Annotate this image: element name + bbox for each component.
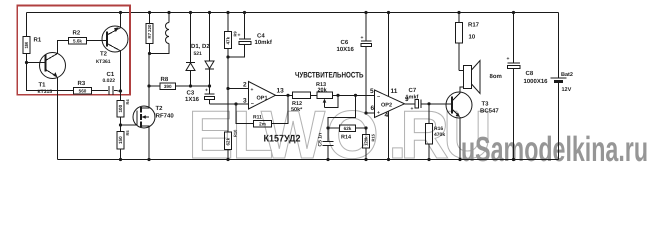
svg-text:+: + bbox=[377, 110, 380, 116]
op-amp OP1 bbox=[249, 82, 276, 110]
node T2 collector / C1 / R4 bbox=[119, 89, 122, 92]
resistor R4 bbox=[117, 91, 130, 132]
svg-text:13: 13 bbox=[277, 88, 285, 95]
watermark ELWO.RU bbox=[188, 97, 492, 173]
svg-text:R7 220: R7 220 bbox=[147, 24, 152, 38]
svg-text:R17: R17 bbox=[468, 22, 480, 29]
potentiometer R13 bbox=[316, 82, 375, 108]
svg-text:100: 100 bbox=[118, 104, 123, 112]
svg-text:C3: C3 bbox=[187, 90, 195, 97]
capacitor C6 bbox=[361, 13, 372, 114]
svg-text:КТ361: КТ361 bbox=[96, 59, 111, 65]
svg-text:20k: 20k bbox=[318, 88, 328, 94]
svg-text:R5: R5 bbox=[125, 130, 130, 136]
resistor R8 bbox=[149, 76, 191, 89]
capacitor C1 bbox=[109, 86, 113, 95]
svg-text:Bat2: Bat2 bbox=[561, 72, 573, 78]
wire to T3 base bbox=[429, 103, 452, 105]
transistor T2 KT361 bbox=[102, 26, 128, 52]
battery Bat2 bbox=[551, 13, 567, 160]
resistor R5 bbox=[117, 130, 130, 160]
svg-text:+: + bbox=[507, 56, 510, 62]
wire T1 collector to R2 bbox=[58, 41, 69, 54]
svg-text:470k: 470k bbox=[434, 132, 445, 138]
svg-text:8om: 8om bbox=[490, 73, 502, 80]
svg-text:C8: C8 bbox=[526, 70, 534, 77]
svg-text:T2: T2 bbox=[100, 51, 108, 58]
svg-text:2m: 2m bbox=[259, 122, 266, 127]
watermark uSamodelkina.ru bbox=[461, 130, 648, 169]
transistor T1 KT315 bbox=[40, 53, 66, 79]
svg-text:521: 521 bbox=[194, 51, 203, 57]
svg-text:4: 4 bbox=[385, 112, 389, 119]
svg-text:50k*: 50k* bbox=[291, 107, 303, 113]
svg-text:R4: R4 bbox=[125, 99, 130, 105]
svg-text:R10: R10 bbox=[233, 129, 238, 137]
wire R9 node to R10 bbox=[227, 89, 229, 133]
svg-text:47k: 47k bbox=[226, 36, 231, 44]
node gate junction bbox=[119, 123, 122, 126]
resistor R11 feedback bbox=[234, 95, 288, 127]
svg-text:uSamodelkina.ru: uSamodelkina.ru bbox=[461, 130, 648, 169]
svg-text:5.6k: 5.6k bbox=[73, 39, 82, 44]
svg-text:R15: R15 bbox=[371, 133, 376, 141]
svg-text:3: 3 bbox=[243, 98, 247, 105]
svg-text:10X16: 10X16 bbox=[337, 46, 355, 53]
svg-text:1X16: 1X16 bbox=[185, 96, 200, 103]
resistor R14 bbox=[328, 125, 366, 141]
wire bottom rail bbox=[58, 159, 559, 161]
svg-text:11: 11 bbox=[391, 88, 398, 95]
svg-text:E: E bbox=[188, 97, 233, 173]
svg-text:D1, D2: D1, D2 bbox=[191, 43, 210, 50]
resistor R17 bbox=[456, 13, 480, 71]
svg-text:+: + bbox=[238, 33, 241, 39]
capacitor C5 bbox=[323, 128, 334, 160]
svg-text:+: + bbox=[251, 87, 254, 93]
wire tap to RC network bbox=[354, 94, 357, 97]
svg-text:OP2: OP2 bbox=[381, 103, 392, 109]
svg-text:T3: T3 bbox=[482, 101, 490, 108]
svg-text:IRF740: IRF740 bbox=[154, 113, 174, 120]
node KT361 emitter on rail bbox=[119, 11, 122, 14]
wire OP2 pin11 to rail bbox=[388, 13, 390, 97]
svg-text:0.022: 0.022 bbox=[103, 78, 116, 84]
svg-text:C1: C1 bbox=[107, 71, 115, 78]
resistor R9 bbox=[225, 13, 238, 89]
resistor R2 bbox=[69, 30, 87, 44]
wire T1 base bbox=[27, 62, 46, 64]
svg-text:5: 5 bbox=[370, 88, 374, 95]
svg-text:BC547: BC547 bbox=[480, 108, 499, 115]
capacitor C4 bbox=[228, 13, 251, 58]
svg-text:2: 2 bbox=[243, 82, 247, 89]
svg-text:−: − bbox=[251, 102, 254, 108]
wire OP2 pin4 to rail bbox=[388, 111, 390, 159]
svg-text:C6: C6 bbox=[341, 39, 349, 46]
wire T1 emitter down to rail bbox=[57, 78, 59, 160]
diode D2 bbox=[191, 13, 215, 87]
svg-text:10: 10 bbox=[469, 34, 476, 41]
svg-text:К157УД2: К157УД2 bbox=[264, 134, 301, 145]
wire OP1 pin2 bbox=[228, 88, 249, 90]
capacitor C8 bbox=[508, 13, 521, 160]
wire drain up bbox=[148, 54, 150, 107]
svg-text:62k: 62k bbox=[344, 126, 352, 131]
svg-text:R8: R8 bbox=[161, 76, 169, 83]
svg-text:T1: T1 bbox=[39, 82, 47, 89]
wire T3 emitter to rail bbox=[459, 117, 461, 160]
svg-text:150: 150 bbox=[118, 136, 123, 144]
resistor R7 bbox=[146, 13, 153, 54]
wire R2 to T2 base bbox=[87, 40, 108, 42]
diode D1 bbox=[186, 13, 195, 87]
svg-text:R1: R1 bbox=[34, 37, 42, 44]
resistor R16 bbox=[426, 104, 446, 160]
resistor R1 bbox=[23, 37, 42, 54]
svg-text:12V: 12V bbox=[562, 87, 572, 93]
svg-text:R14: R14 bbox=[341, 135, 352, 141]
wire T2 emitter to rail bbox=[120, 13, 122, 28]
transistor T2 IRF740 bbox=[133, 106, 155, 128]
svg-text:R3: R3 bbox=[78, 80, 86, 87]
svg-text:C7: C7 bbox=[409, 87, 417, 94]
wire gate bbox=[121, 124, 138, 126]
wire T2 collector to node bbox=[120, 51, 122, 91]
capacitor C3 bbox=[205, 86, 215, 104]
wire OP2 pin6 bbox=[366, 112, 375, 114]
svg-text:1M: 1M bbox=[24, 42, 29, 49]
svg-text:560: 560 bbox=[79, 89, 87, 94]
resistor R10 bbox=[225, 129, 238, 160]
svg-text:КТ315: КТ315 bbox=[38, 89, 53, 95]
resistor R12 bbox=[291, 92, 317, 113]
svg-text:T2: T2 bbox=[156, 105, 164, 112]
capacitor C7 bbox=[405, 100, 430, 109]
red highlight box bbox=[17, 6, 130, 95]
svg-text:OP1: OP1 bbox=[257, 96, 268, 102]
wire T3 collector to speaker bbox=[460, 87, 464, 93]
resistor R15 bbox=[363, 126, 376, 159]
wire R1 branch bbox=[26, 13, 28, 37]
svg-text:62k: 62k bbox=[226, 137, 231, 145]
wire source down bbox=[148, 128, 150, 160]
svg-text:390: 390 bbox=[164, 84, 172, 89]
svg-text:C5 1n: C5 1n bbox=[318, 133, 324, 147]
svg-text:ЧУВСТВИТЕЛЬНОСТЬ: ЧУВСТВИТЕЛЬНОСТЬ bbox=[295, 71, 364, 80]
svg-text:+: + bbox=[361, 35, 364, 41]
svg-text:R2: R2 bbox=[73, 30, 81, 37]
node T1 base bbox=[25, 61, 28, 64]
svg-text:+: + bbox=[205, 88, 208, 94]
svg-text:C4: C4 bbox=[257, 33, 265, 40]
wire top rail bbox=[27, 12, 559, 14]
wire OP1 output bbox=[276, 94, 293, 96]
svg-text:+: + bbox=[411, 106, 414, 112]
svg-text:6: 6 bbox=[371, 105, 375, 112]
op-amp OP2 bbox=[375, 90, 405, 118]
svg-text:1000X16: 1000X16 bbox=[524, 78, 549, 85]
svg-text:R11: R11 bbox=[253, 115, 262, 121]
svg-text:1mkf: 1mkf bbox=[406, 95, 419, 101]
svg-text:10mkf: 10mkf bbox=[255, 39, 273, 46]
svg-text:120k: 120k bbox=[364, 136, 369, 146]
resistor R3 bbox=[74, 80, 92, 94]
transistor T3 BC547 bbox=[446, 92, 472, 118]
inductor L bbox=[150, 13, 170, 54]
wire C3 to OP1 pin3 bbox=[210, 103, 249, 105]
speaker bbox=[459, 61, 480, 94]
wire C1 to node bbox=[92, 90, 109, 92]
svg-text:−: − bbox=[377, 95, 380, 101]
